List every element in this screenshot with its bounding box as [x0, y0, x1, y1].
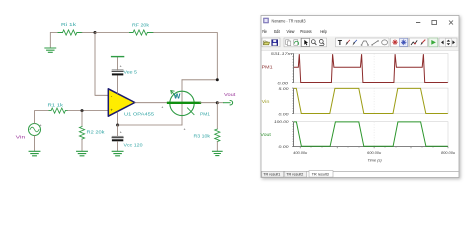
svg-text:Noname - TR result3: Noname - TR result3	[272, 19, 306, 24]
svg-text:R1 1k: R1 1k	[48, 102, 65, 107]
icon zoom area	[319, 40, 324, 46]
op-amp U1 OPA455	[108, 89, 154, 117]
ground (left of Ri)	[45, 48, 56, 52]
svg-text:File: File	[262, 29, 267, 35]
close button	[449, 21, 453, 25]
svg-text:PM1: PM1	[200, 111, 211, 116]
icon annotate pen	[421, 40, 426, 46]
svg-text:Help: Help	[320, 29, 327, 35]
maximize button	[432, 20, 437, 24]
svg-text:600.00u: 600.00u	[367, 150, 382, 155]
node B (R1/R2 divider node)	[81, 109, 84, 112]
icon curve tool	[361, 41, 369, 46]
toolbar group clipboard	[284, 38, 301, 47]
svg-text:+: +	[184, 127, 186, 131]
svg-text:400.00u: 400.00u	[293, 150, 308, 155]
wire node A down to op-amp inverting input	[95, 33, 108, 96]
tab strip	[261, 171, 458, 178]
svg-text:531.17m: 531.17m	[271, 51, 293, 56]
svg-text:Vcc 120: Vcc 120	[124, 142, 144, 147]
power meter PM1	[161, 80, 210, 132]
svg-text:TR result1: TR result1	[263, 173, 280, 177]
ground under Vcc	[112, 141, 123, 156]
curve PM1	[294, 54, 448, 82]
svg-text:R2 20k: R2 20k	[87, 129, 106, 134]
icon pen 2	[353, 40, 357, 46]
title bar icon	[264, 18, 269, 23]
icon ellipse tool	[382, 40, 388, 45]
x axis labels	[293, 150, 456, 163]
svg-text:T: T	[338, 40, 343, 47]
wire R1 to op-amp non-inverting input	[68, 110, 109, 112]
output pin Vout	[217, 92, 236, 105]
resistor R2	[79, 111, 105, 151]
svg-text:Vout: Vout	[224, 92, 236, 97]
toolbar group draw tools	[336, 38, 390, 47]
power rail T above Vee	[112, 57, 124, 70]
node E (output node)	[216, 101, 219, 104]
wire supply node to meter bottom	[118, 124, 182, 126]
svg-text:+: +	[120, 130, 122, 134]
svg-text:Ri 1k: Ri 1k	[61, 22, 77, 27]
svg-text:Time (s): Time (s)	[367, 158, 382, 163]
ground under R2	[77, 151, 88, 156]
svg-text:5.00: 5.00	[279, 86, 290, 91]
ground under R3	[213, 142, 223, 156]
svg-text:Vin: Vin	[16, 134, 26, 139]
plot frame PM1	[292, 54, 448, 83]
svg-text:Vout: Vout	[260, 132, 271, 137]
svg-text:PM1: PM1	[262, 65, 274, 70]
icon open folder	[264, 41, 270, 45]
svg-text:+: +	[120, 65, 122, 69]
svg-text:Vee 5: Vee 5	[124, 70, 138, 75]
resistor RF	[130, 23, 154, 36]
icon pen 1	[346, 40, 350, 46]
svg-text:RF 20k: RF 20k	[132, 23, 150, 28]
toolbar group process	[410, 38, 428, 47]
wire RF to right feedback rail	[153, 33, 217, 80]
icon cursor (pressed)	[301, 38, 309, 46]
wire Vin up to R1 row	[35, 111, 50, 124]
menu bar	[262, 29, 327, 35]
svg-text:Process: Process	[300, 29, 312, 35]
button play	[429, 38, 438, 47]
svg-text:+: +	[161, 106, 163, 110]
svg-text:800.00u: 800.00u	[441, 150, 456, 155]
svg-text:W: W	[174, 93, 181, 100]
svg-text:U1 OPA455: U1 OPA455	[124, 112, 155, 117]
svg-text:Vin: Vin	[262, 99, 270, 104]
svg-text:0.00: 0.00	[279, 144, 290, 149]
icon chart	[411, 40, 417, 45]
node A (feedback input node)	[94, 31, 97, 34]
minimize button	[416, 22, 420, 24]
battery Vee 5	[112, 65, 138, 75]
svg-text:TR result2: TR result2	[286, 173, 303, 177]
wire op-amp bottom supply pin	[117, 112, 119, 125]
wire meter to output node	[200, 102, 217, 104]
svg-text:100.00: 100.00	[274, 119, 290, 124]
svg-text:Edit: Edit	[274, 29, 280, 35]
resistor R3	[194, 129, 220, 142]
wire meter top sense tap	[182, 79, 217, 81]
icon zoom in	[311, 40, 316, 45]
spinner buttons	[439, 38, 457, 47]
wire op-amp top supply pin	[117, 76, 119, 94]
icon paste	[294, 40, 299, 45]
wire output node down to R3	[216, 103, 218, 129]
icon save floppy	[272, 40, 278, 46]
curve Vout	[294, 122, 448, 146]
voltage source Vin	[16, 124, 42, 140]
icon blue axes	[400, 38, 408, 46]
wire op-amp output to meter	[135, 102, 168, 104]
curve Vin	[294, 88, 448, 113]
resistor Ri	[58, 22, 82, 35]
toolbar group file	[262, 38, 280, 47]
toolbar group pointer/zoom	[301, 38, 327, 47]
wire ground to Ri	[50, 33, 58, 48]
plot frame Vin	[292, 88, 448, 114]
wire Ri to node A	[82, 32, 95, 34]
node D (top sense junction)	[216, 78, 219, 81]
toolbar strip	[262, 37, 459, 51]
icon line tool	[371, 40, 378, 45]
svg-text:0.00: 0.00	[278, 81, 290, 86]
node C (V+ supply node)	[116, 124, 119, 127]
resistor R1	[48, 102, 68, 113]
icon red axes	[392, 40, 398, 46]
icon copy	[286, 40, 291, 46]
svg-text:View: View	[287, 29, 295, 35]
svg-text:0.00: 0.00	[279, 111, 290, 116]
toolbar group axes	[391, 38, 409, 47]
ground under Vin	[29, 136, 40, 156]
svg-text:+: +	[40, 124, 42, 128]
battery Vcc 120	[112, 125, 143, 147]
svg-text:TR result3: TR result3	[312, 173, 329, 177]
window frame	[261, 16, 459, 178]
svg-text:R3 10k: R3 10k	[194, 133, 212, 138]
plot frame Vout	[292, 122, 448, 149]
wire node A to RF	[95, 32, 130, 34]
